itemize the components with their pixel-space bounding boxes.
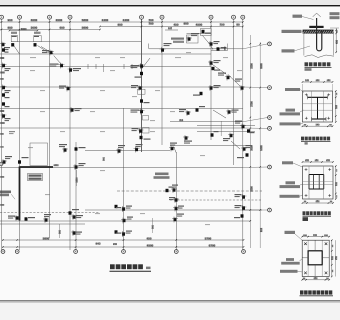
- column C-4b: [140, 99, 150, 103]
- grid line horizontal y=121.7: [170, 121, 243, 123]
- svg-text:6300: 6300: [260, 145, 263, 151]
- svg-text:900: 900: [260, 227, 263, 232]
- svg-text:200: 200: [113, 243, 118, 246]
- column K-2: [71, 214, 83, 220]
- column left C3: [2, 102, 10, 107]
- detail B stiffener projection lines: [303, 103, 332, 105]
- column G-0: [1, 156, 12, 165]
- axis bubble right 2 with leader: [243, 86, 268, 89]
- svg-text:450: 450: [336, 39, 339, 44]
- column B-7b: [212, 67, 221, 71]
- axis bubble top 5: [140, 15, 144, 19]
- leader diagonal (202.5,35.5)-(210,44.5): [203, 36, 211, 45]
- svg-text:900: 900: [7, 18, 12, 22]
- svg-text:600: 600: [59, 26, 64, 30]
- detail B leader: bottom plate: [280, 122, 301, 125]
- column B-7: [208, 60, 221, 66]
- detail A top-right notes: [330, 12, 340, 15]
- svg-text:3300: 3300: [250, 186, 253, 192]
- column L-4: [121, 231, 133, 238]
- column E-7: [211, 131, 219, 137]
- column A-7b: [217, 47, 227, 51]
- column J-8: [235, 205, 247, 211]
- svg-text:900: 900: [183, 22, 188, 26]
- grid line axis-3 vertical x=49.5: [49, 19, 51, 238]
- axis bubble right 4 with leader: [243, 127, 268, 129]
- detail C caption: [303, 211, 306, 215]
- boxed column zone 4: [201, 29, 212, 36]
- column zone2 blob: [34, 36, 40, 47]
- column B-2: [68, 67, 82, 73]
- grid line horizontal y=108.5: [0, 108, 243, 110]
- axis bubble top 7: [209, 15, 213, 19]
- column C-7: [208, 85, 221, 91]
- grid line horizontal y=212.3: [0, 211, 100, 213]
- column E-8b: [247, 129, 255, 133]
- column K-4: [121, 217, 133, 224]
- small dim marks left below line 128: [9, 131, 15, 132]
- svg-text:2400: 2400: [102, 18, 109, 22]
- column A-7: [208, 41, 220, 47]
- ramp note top-left of lower wing: [0, 191, 11, 194]
- stairwell outline: [30, 143, 48, 166]
- axis bubble right 6 with leader: [243, 209, 268, 211]
- column left D: [1, 113, 11, 121]
- column G-1: [18, 157, 29, 164]
- left axis bubble: [0, 162, 3, 166]
- axis bubble bottom 2: [15, 250, 19, 254]
- column I-8: [235, 194, 247, 200]
- right dimension chain lines: [249, 35, 251, 248]
- detail B leader: stiffener: [286, 109, 296, 112]
- leader diagonal (37.5,45.5)-(49,53): [38, 46, 50, 54]
- extra top dimension numbers: [56, 19, 63, 21]
- axis bubble top 9: [241, 15, 245, 19]
- grid line axis-5 vertical x=141.5: [141, 19, 143, 152]
- leader diagonal (213,110)-(226,118): [213, 110, 226, 118]
- detail C right dimension: [335, 166, 337, 199]
- grid line horizontal y=210: [85, 209, 262, 211]
- concrete block side lines: [303, 33, 305, 55]
- grid line lower-wing axis-L1 vertical x=76: [75, 142, 77, 250]
- grid line axis-8 vertical x=233.5: [233, 19, 235, 165]
- boxed column zone 1: [11, 36, 17, 42]
- detail D leader: anchor: [280, 270, 298, 273]
- column left B: [1, 63, 11, 72]
- axis bubble top 4: [68, 15, 72, 19]
- detail C outer base plate: [303, 166, 334, 199]
- duct note text right: [155, 173, 169, 176]
- grid line horizontal y=200: [170, 199, 262, 201]
- grid line horizontal y=33.5: [187, 33, 212, 35]
- column GKZ1b: [131, 63, 145, 69]
- grid line horizontal y=41.7: [11, 41, 142, 43]
- detail B right dimension: [335, 91, 337, 122]
- column L-2: [71, 230, 82, 236]
- axis bubble top 2: [18, 15, 22, 19]
- top dimension numbers: [8, 19, 13, 21]
- column C-7 label: [193, 92, 203, 96]
- svg-text:1500: 1500: [77, 177, 79, 183]
- stub dim short texts: [179, 120, 183, 122]
- leader diagonal (13.7,45.5)-(19.5,54): [14, 46, 20, 55]
- grid line axis-1 vertical x=1.5: [1, 19, 3, 250]
- axis bubble top 1: [0, 15, 4, 19]
- column GKZ1 stair: [42, 50, 54, 56]
- grid line horizontal y=66.5: [0, 66, 211, 68]
- detail C leader: stiffener: [286, 181, 296, 184]
- column zone3 blob: [186, 33, 199, 42]
- column zone1 blob: [11, 36, 17, 47]
- leader diagonal (150,58)-(141.5,69): [142, 58, 151, 69]
- top dimension lines: [0, 21, 243, 23]
- column F-5: [134, 144, 143, 153]
- svg-text:3000: 3000: [21, 28, 27, 31]
- detail C leader: anchor note: [280, 195, 300, 198]
- small zone rects mid column: [138, 89, 146, 94]
- column F-4: [116, 145, 125, 154]
- bottom break line: [305, 55, 334, 58]
- leader diagonal (53.7,55.5)-(61.2,64.2): [54, 56, 62, 65]
- grid line horizontal y=128: [0, 127, 243, 129]
- svg-text:900: 900: [7, 26, 12, 30]
- axis bubble top 3: [48, 15, 52, 19]
- column B-5: [160, 43, 172, 53]
- main title caption: [110, 264, 115, 269]
- grid line horizontal y=167.5: [0, 167, 243, 169]
- column K-1b: [25, 217, 36, 221]
- svg-text:3000: 3000: [31, 26, 38, 30]
- column K-1c: [43, 214, 51, 223]
- svg-text:167: 167: [168, 27, 173, 30]
- axis bubble right 3 with leader: [243, 118, 268, 122]
- column C-2: [59, 86, 71, 92]
- column GKZ1a: [50, 63, 65, 69]
- detail D right dimension: [331, 240, 333, 276]
- detail D outer base plate: [302, 240, 329, 276]
- svg-text:3000: 3000: [31, 18, 38, 22]
- sheet bottom border line: [0, 300, 340, 301]
- svg-text:2700: 2700: [250, 101, 253, 107]
- grid line horizontal y=48.8: [149, 48, 243, 50]
- bottom dimension numbers: [43, 237, 50, 239]
- column D-5: [131, 109, 145, 115]
- beam stub tick and dim: [227, 44, 229, 51]
- svg-text:3300: 3300: [250, 63, 253, 69]
- duct note box: [28, 174, 43, 181]
- anchor bolt rod with hook: [317, 18, 322, 51]
- svg-text:5800: 5800: [82, 18, 89, 22]
- leader diagonal (211,63.5)-(226,74): [211, 64, 226, 75]
- detail D 4-M24 leader: [285, 231, 296, 234]
- sheet top border line: [0, 5, 340, 6]
- leader diagonal (228,74.5)-(240,86): [228, 75, 240, 87]
- svg-text:1200: 1200: [53, 165, 59, 167]
- detail D caption: [300, 290, 304, 294]
- column C-8: [235, 79, 245, 92]
- detail B caption: [301, 137, 304, 141]
- grid line horizontal y=87: [0, 86, 243, 88]
- grid line horizontal y=54: [0, 53, 211, 55]
- column H-5: [166, 187, 174, 193]
- axis bubble bottom 6: [242, 250, 246, 254]
- column F-8b: [237, 153, 249, 158]
- leader diagonal (211,46)-(213,49.5): [211, 46, 213, 50]
- bottom dimension lines: [2, 239, 244, 241]
- svg-text:943: 943: [95, 242, 100, 246]
- column E-8: [235, 121, 246, 130]
- column left C2: [2, 93, 10, 98]
- svg-text:450: 450: [173, 23, 178, 27]
- column K-6: [172, 214, 184, 223]
- svg-text:450: 450: [146, 236, 151, 240]
- axis bubble top 6: [160, 15, 164, 19]
- anchor bolt washer plate: [309, 26, 323, 28]
- bolt top break symbol: [313, 13, 321, 17]
- detail A leader text: construction note: [282, 49, 295, 52]
- anchor bolt detail: concrete hatch band: [303, 30, 334, 34]
- detail D leader: stiffener: [286, 258, 294, 261]
- svg-text:6000: 6000: [260, 63, 263, 69]
- grid line horizontal y=150.5: [85, 150, 170, 152]
- svg-text:4500: 4500: [147, 243, 154, 247]
- leader diagonal (173.7,146.7)-(176.3,153): [174, 147, 177, 153]
- detail B H-section: [308, 95, 328, 121]
- svg-text:750: 750: [219, 23, 224, 27]
- svg-text:6700: 6700: [209, 243, 216, 247]
- detail D top dimension: [302, 236, 329, 238]
- svg-text:5700: 5700: [205, 236, 212, 240]
- detail D stiffener lines: [314, 240, 316, 250]
- detail D anchor bolts: [304, 242, 307, 245]
- detail A leader text: bolt name: [293, 15, 303, 18]
- grid line horizontal y=191: [117, 190, 262, 192]
- axis bubble right 1 with leader: [243, 44, 268, 49]
- grid line axis-4 vertical x=70: [69, 19, 71, 250]
- grid line axis-7 vertical x=211: [210, 19, 212, 140]
- detail C anchor bolts: [305, 169, 308, 171]
- shear wall horizontal thick: [20, 166, 54, 168]
- grid line axis-2 vertical x=19.5: [19, 19, 21, 250]
- column J-6: [173, 206, 184, 212]
- column I-6: [169, 197, 179, 203]
- column left A: [0, 42, 10, 51]
- grid line lower-wing axis-L3 vertical x=176.3: [175, 152, 177, 250]
- grid line horizontal y=131.7: [197, 131, 255, 133]
- detail B anchor bolts: [305, 94, 308, 96]
- column zone4 blob: [202, 30, 212, 34]
- detail D bottom dimension: [302, 279, 329, 281]
- column H-6: [171, 185, 178, 194]
- column B-8: [218, 73, 231, 81]
- grid line horizontal y=50.5: [211, 50, 228, 52]
- axis bubble bottom 3: [74, 250, 78, 254]
- rotated small dim texts in plan: [103, 157, 105, 161]
- short stub verticals: [220, 121, 222, 136]
- column D-6: [179, 109, 191, 116]
- column F-2a: [59, 144, 68, 153]
- grid line horizontal y=224: [0, 223, 85, 225]
- shear wall vertical thick: [19, 167, 21, 221]
- grid line horizontal y=125.5: [197, 125, 255, 127]
- svg-text:5800: 5800: [82, 26, 89, 30]
- column left C: [1, 85, 11, 94]
- detail C bottom dimension: [303, 202, 334, 204]
- leader diagonal (231,141)-(240,149): [231, 141, 240, 149]
- detail B bottom dimension: [303, 125, 333, 127]
- column K-8: [234, 214, 244, 218]
- detail B outer base plate: [303, 91, 333, 122]
- grid line horizontal y=221: [0, 220, 250, 222]
- svg-text:2400: 2400: [123, 18, 130, 22]
- column J-4: [121, 206, 133, 213]
- detail A right dimension: [335, 28, 337, 53]
- column D-8: [226, 109, 239, 115]
- small ticks on axis lines: [87, 64, 89, 69]
- column E-6: [183, 135, 192, 144]
- column J-4 left label: [115, 205, 122, 208]
- column E-5a: [132, 128, 144, 134]
- detail C leader: bolts: [282, 161, 293, 164]
- grid line axis-9 vertical x=242.8: [242, 19, 244, 250]
- detail A caption: [305, 62, 309, 66]
- column F-6: [169, 143, 177, 152]
- axis bubble bottom 4: [122, 250, 126, 254]
- detail D column tube: [308, 251, 322, 265]
- column K-2a: [69, 209, 80, 215]
- axis bubble bottom 5: [174, 250, 178, 254]
- column C-4: [131, 85, 143, 91]
- column L-4 left label: [115, 230, 122, 233]
- column F-8: [241, 145, 252, 152]
- svg-text:80: 80: [236, 23, 240, 27]
- detail B top dimension: [303, 81, 333, 83]
- column E-8c: [223, 133, 234, 142]
- svg-text:700: 700: [148, 18, 153, 22]
- column E-5b: [140, 136, 151, 140]
- extra left-edge column marks: [0, 57, 4, 59]
- column F-2b: [75, 147, 86, 151]
- detail A leader text: embed note: [282, 30, 302, 33]
- column G-2: [73, 163, 86, 170]
- column GKZ1b label: [135, 72, 144, 78]
- detail C box column section: [309, 175, 324, 190]
- detail C top dimension: [303, 161, 334, 163]
- svg-text:5800: 5800: [43, 236, 50, 240]
- axis bubble right 5 with leader: [243, 166, 268, 169]
- grid line axis-6 vertical x=162: [161, 19, 163, 145]
- svg-text:4500: 4500: [196, 23, 203, 27]
- grid line horizontal y=145.5: [170, 145, 252, 147]
- leader diagonal (41,46.5)-(53.5,54): [41, 47, 54, 55]
- scattered small dimension smudges in plan: [30, 57, 36, 58]
- axis bubble top 8: [232, 15, 236, 19]
- grid line lower-wing axis-L2 vertical x=123.5: [123, 108, 125, 250]
- column K-1: [8, 215, 20, 221]
- column left A2: [2, 48, 9, 52]
- boxed column zone 2: [34, 36, 42, 42]
- axis bubble bottom 1: [1, 250, 5, 254]
- detail B leader: base plate: [285, 88, 300, 91]
- column D-2: [69, 107, 82, 113]
- svg-text:2000: 2000: [56, 18, 63, 22]
- svg-text:900: 900: [117, 23, 122, 27]
- column D-6b: [196, 106, 206, 112]
- detail C stiffener lines: [303, 184, 333, 186]
- boxed column zone 3: [187, 35, 199, 43]
